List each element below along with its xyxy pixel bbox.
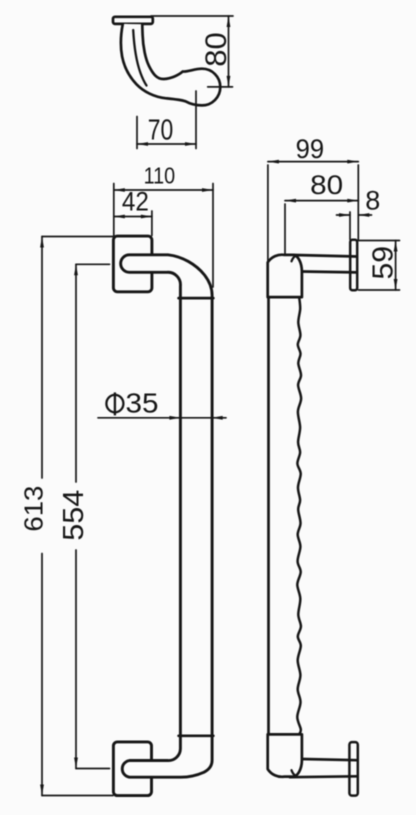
dimension 59 arrow down xyxy=(394,279,398,290)
dimension 42 arrow right xyxy=(141,215,152,219)
svg-text:35: 35 xyxy=(126,388,159,419)
front view: top mounting plate xyxy=(113,236,151,292)
dimension 8 arrow left-pointing xyxy=(358,213,369,217)
dimension 110 extension line left xyxy=(113,184,115,236)
svg-text:8: 8 xyxy=(365,186,380,216)
dimension 8 arrow right-pointing xyxy=(339,213,350,217)
dimension 80 (side) arrow left xyxy=(285,199,296,203)
side view: top mounting plate xyxy=(350,240,357,290)
dimension 42 extension line right xyxy=(151,211,153,236)
dimension 554 dimension line xyxy=(75,264,77,768)
side view: bar knurled right edge xyxy=(297,298,301,735)
side view: top arm tube lines xyxy=(290,255,357,273)
detail view: neck middle contour line xyxy=(133,30,146,86)
dimension 42 dimension line xyxy=(114,216,152,218)
dimension 8 extension line left xyxy=(349,212,351,240)
dimension 99 extension line left xyxy=(267,165,269,262)
svg-text:42: 42 xyxy=(122,187,149,217)
front view: bar with top and bottom arms (outline) xyxy=(121,255,212,777)
detail view: wall plate xyxy=(113,17,153,24)
front view: top sleeve joint line xyxy=(179,297,214,300)
dimension 613 extension line bottom xyxy=(42,795,113,797)
dimension 613 arrow up xyxy=(40,237,44,248)
front view: bottom mounting plate xyxy=(113,742,151,796)
dimension 8 dimension line with outside arrows xyxy=(337,214,372,216)
dimension 99 arrow left xyxy=(268,160,279,164)
dimension 70 (detail) arrow left xyxy=(137,142,148,146)
dimension 59 extension line bottom xyxy=(359,289,400,291)
dimension 99 dimension line xyxy=(268,161,358,163)
side view: bottom arm tube lines xyxy=(290,759,357,777)
front view: bottom sleeve joint line xyxy=(179,734,214,737)
dimension 99 / 80 / 8 shared extension line right xyxy=(357,165,359,240)
dimension 554 extension line top xyxy=(76,263,110,265)
svg-text:80: 80 xyxy=(200,32,233,67)
dimension 80 (side) extension line left xyxy=(284,204,286,254)
dimension 613 arrow down xyxy=(40,785,44,796)
dimension 110 dimension line xyxy=(114,189,213,191)
dimension 99 arrow right xyxy=(347,160,358,164)
dimension 80 (side) dimension line xyxy=(285,200,358,202)
dimension 70 (detail) extension line right xyxy=(195,91,197,149)
svg-text:110: 110 xyxy=(144,163,176,189)
side view: top elbow notch xyxy=(292,255,297,261)
dimension 42 arrow left xyxy=(114,215,125,219)
side view: bottom mounting plate xyxy=(349,742,357,796)
dimension 613 dimension line xyxy=(41,237,43,796)
side view: bar left edge xyxy=(267,297,270,734)
svg-text:554: 554 xyxy=(58,490,90,541)
svg-text:70: 70 xyxy=(148,115,174,147)
dimension 80 (detail) extension line bottom xyxy=(208,86,233,88)
dimension 70 (detail) arrow right xyxy=(185,142,196,146)
detail view: hook body outline xyxy=(121,24,220,106)
dimension 110 arrow left xyxy=(114,188,125,192)
dimension phi35 leader line xyxy=(98,417,226,419)
dimension 110 arrow right xyxy=(202,188,213,192)
dimension 554 arrow down xyxy=(74,758,78,769)
side view: top elbow xyxy=(268,255,302,297)
dimension 70 (detail) extension line left xyxy=(136,117,138,149)
dimension 59 dimension line xyxy=(395,241,397,291)
svg-text:59: 59 xyxy=(368,246,400,280)
label phi35 symbol xyxy=(106,392,123,415)
dimension 80 (detail) extension line top xyxy=(151,15,233,17)
dimension 59 extension line top xyxy=(359,240,400,242)
svg-text:99: 99 xyxy=(296,134,325,164)
dimension 70 (detail) dimension line xyxy=(137,143,196,145)
svg-text:80: 80 xyxy=(310,170,343,200)
dimension phi35 arrow at left edge xyxy=(169,416,180,420)
dimension 80 (side) arrow right xyxy=(347,199,358,203)
side view: bottom elbow xyxy=(268,734,302,776)
dimension 613 extension line top xyxy=(42,236,113,238)
dimension 554 arrow up xyxy=(74,264,78,275)
dimension 80 (detail) arrow up xyxy=(227,16,231,27)
dimension 554 extension line bottom xyxy=(76,768,110,770)
dimension 59 arrow up xyxy=(394,241,398,252)
dimension 80 (detail) dimension line xyxy=(228,16,230,87)
dimension 110 extension line right xyxy=(212,184,214,288)
dimension 80 (detail) arrow down xyxy=(227,76,231,87)
svg-text:613: 613 xyxy=(19,486,49,532)
dimension phi35 arrow at right edge xyxy=(212,416,223,420)
side view: bottom elbow notch xyxy=(292,770,297,776)
